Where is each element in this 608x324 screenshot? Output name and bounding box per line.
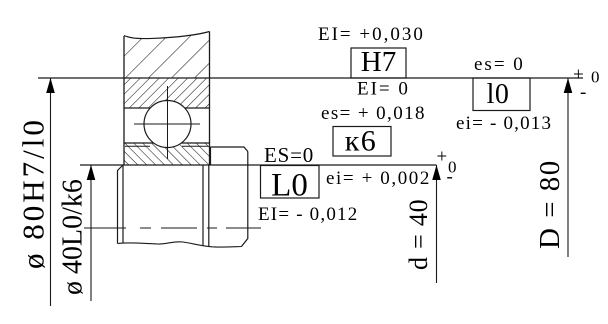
svg-text:L0: L0	[271, 168, 308, 204]
svg-text:к6: к6	[345, 125, 378, 158]
box L0	[261, 166, 320, 199]
svg-text:+: +	[437, 147, 448, 168]
shaft zero line	[80, 164, 437, 166]
dim line D=80	[567, 78, 569, 257]
svg-text:ES=0: ES=0	[264, 143, 314, 167]
svg-text:0: 0	[591, 68, 600, 87]
arrowhead dia40 dim line	[87, 165, 96, 180]
arrowhead dia80 dim line	[46, 78, 55, 93]
shaft shoulder top	[211, 147, 248, 152]
svg-text:es= 0: es= 0	[474, 54, 525, 75]
bearing outer ring hatched band	[124, 78, 210, 108]
svg-text:EI= +0,030: EI= +0,030	[318, 24, 425, 45]
svg-text:ø 80H7/l0: ø 80H7/l0	[16, 117, 51, 269]
svg-text:es= + 0,018: es= + 0,018	[321, 103, 426, 124]
box l0	[473, 78, 530, 111]
shaft bottom break line	[118, 242, 242, 247]
hole zero line	[38, 77, 583, 79]
box H7	[351, 48, 406, 78]
shaft left edge with chamfer	[118, 165, 124, 244]
svg-text:l0: l0	[487, 79, 510, 110]
shaft axis center line	[84, 227, 261, 229]
svg-text:EI= - 0,012: EI= - 0,012	[258, 204, 358, 225]
box k6	[333, 127, 391, 157]
svg-text:ei= + 0,002: ei= + 0,002	[326, 168, 431, 189]
inner ring top line	[124, 142, 210, 144]
bearing left edge	[123, 36, 125, 165]
svg-text:d = 40: d = 40	[404, 199, 433, 270]
arrowhead D=80 dim line	[564, 78, 573, 93]
svg-text:ø 40L0/k6: ø 40L0/k6	[58, 179, 89, 295]
dim line dia40L0/k6	[90, 165, 92, 301]
svg-text:ei= - 0,013: ei= - 0,013	[456, 113, 552, 134]
raceway shoulder line left	[125, 145, 150, 147]
bearing right edge	[209, 32, 211, 166]
svg-text:D = 80: D = 80	[534, 159, 566, 249]
arrowhead d=40 dim line	[432, 165, 441, 180]
svg-text:EI= 0: EI= 0	[357, 79, 410, 100]
shaft right edge with chamfer	[242, 152, 248, 247]
svg-text:-: -	[580, 82, 586, 103]
housing hatched block	[124, 32, 210, 79]
shaft chamfer line	[122, 165, 124, 243]
dim line dia80H7/l0	[50, 78, 52, 306]
bearing inner ring hatched band	[124, 143, 210, 165]
svg-text:H7: H7	[361, 46, 396, 78]
shaft groove line a	[202, 165, 204, 246]
svg-text:-: -	[447, 167, 453, 188]
shaft shoulder face	[210, 147, 212, 165]
raceway shoulder line right	[182, 145, 209, 147]
outer ring bore line	[124, 107, 210, 109]
ball	[134, 86, 200, 159]
dim line d=40	[436, 165, 438, 283]
shaft groove line b	[208, 165, 210, 246]
